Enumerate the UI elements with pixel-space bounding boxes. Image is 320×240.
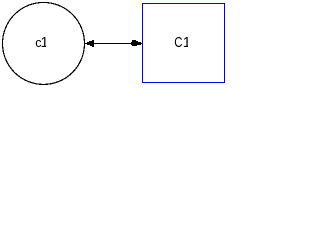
svg-text:C: C bbox=[174, 35, 182, 51]
